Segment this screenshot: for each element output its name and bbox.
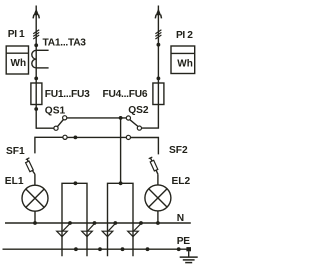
N tap group line 3: junction, diagonal, arrow (102, 221, 117, 237)
wire: row-1 tie bus (67, 117, 127, 119)
wire: PE bus (3, 248, 188, 250)
svg-text:QS2: QS2 (128, 105, 149, 116)
switch QS1 upper contact (to tie bus) (63, 116, 67, 120)
junction nodes on PE bus (74, 247, 181, 251)
switch QS2 upper contact (to tie bus) (126, 116, 130, 120)
svg-text:EL2: EL2 (172, 176, 191, 187)
svg-text:N: N (177, 213, 184, 224)
switch QS2 lower contact (on row 2) (126, 135, 130, 139)
lamp EL1 (22, 185, 48, 211)
junction node: top of CT TA1 (34, 43, 38, 47)
lamp EL2 (145, 185, 171, 211)
wire: group box 2 (two outgoing groups) (108, 183, 134, 256)
wire: feeder 1 vertical (input line 1) (35, 6, 37, 129)
N tap group line 2: junction, diagonal, arrow (82, 221, 97, 237)
PE terminal square (186, 247, 191, 251)
svg-text:PI 1: PI 1 (8, 29, 25, 40)
switch QS1 input contact (54, 126, 58, 130)
junction node: above fuse FU1 (34, 77, 38, 81)
wire: QS2 input to feeder 2 (142, 105, 159, 129)
arrow: incoming line 1 arrowhead (33, 8, 39, 18)
wire: feeder 1 corner to QS1 input (36, 127, 54, 129)
svg-text:PE: PE (177, 236, 190, 247)
ground (earth) symbol (180, 251, 198, 262)
junction node: feeder 2 meter tap (157, 43, 161, 47)
current transformer TA1...TA3 (32, 50, 49, 68)
N tap group line 1: junction, diagonal, arrow (57, 221, 72, 237)
wire: lamp EL1 to N bus (34, 211, 36, 223)
wire: lamp EL2 to N bus (157, 211, 159, 223)
junction node: top of group box 2 (119, 181, 123, 185)
switch QS2 input contact (137, 126, 141, 130)
3-phase slashes on feeder 1 (33, 30, 39, 39)
wire: N bus (5, 222, 191, 224)
svg-text:SF2: SF2 (169, 145, 188, 156)
svg-text:EL1: EL1 (5, 176, 24, 187)
junction node: row 2 to group box 1 drop (74, 136, 78, 140)
junction node: below fuse FU1 (34, 107, 38, 111)
wire: row-2 distribution bus left segment (35, 137, 63, 153)
switch QS1 lower contact (on row 2) (63, 135, 67, 139)
switch QS1 blade (58, 120, 64, 127)
junction node: tie bus to panel drop (119, 116, 123, 120)
junction node: EL2 on N bus (156, 221, 160, 225)
wire: drop from tie bus through row 2 to group box 2 (120, 118, 122, 183)
breaker SF1 (fuse-switch) (26, 158, 35, 174)
svg-text:FU1...FU3: FU1...FU3 (45, 89, 90, 100)
wire: row-2 distribution bus right segment (131, 138, 159, 155)
N tap group line 4: junction, diagonal, arrow (128, 221, 143, 237)
svg-text:TA1...TA3: TA1...TA3 (43, 38, 87, 49)
arrow: incoming line 2 arrowhead (155, 8, 161, 18)
wire: SF2 to lamp EL2 (157, 174, 159, 185)
svg-text:PI 2: PI 2 (176, 30, 193, 41)
meter PI1 box with Wh (6, 46, 28, 74)
svg-text:Wh: Wh (11, 58, 27, 69)
junction node: above fuse FU4 (157, 77, 161, 81)
junction node: EL1 on N bus (33, 221, 37, 225)
wire: group box 1 (two outgoing groups) (62, 183, 87, 256)
switch QS2 blade (130, 120, 138, 127)
svg-text:QS1: QS1 (45, 105, 66, 116)
fuse FU4...FU6 (153, 83, 164, 105)
wire: row-2 distribution bus middle segment (67, 136, 126, 138)
svg-text:FU4...FU6: FU4...FU6 (103, 89, 148, 100)
svg-text:Wh: Wh (177, 59, 193, 70)
svg-text:SF1: SF1 (6, 146, 25, 157)
meter PI2 box with Wh (171, 46, 195, 74)
wire: feeder 2 vertical (input line 2) (157, 6, 159, 105)
junction node: top of group box 1 (74, 181, 78, 185)
fuse FU1...FU3 (31, 83, 42, 105)
breaker SF2 (fuse-switch) (149, 157, 158, 174)
3-phase slashes on feeder 2 (155, 30, 161, 39)
wire: SF1 to lamp EL1 (34, 174, 36, 185)
